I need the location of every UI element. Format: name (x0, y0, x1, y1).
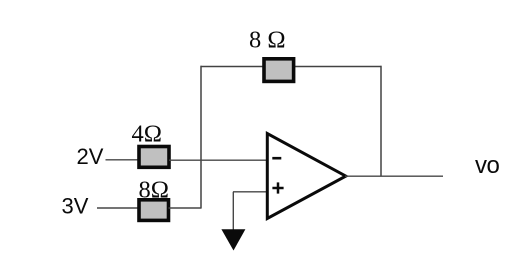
wire: feedback right vertical (from output node) (380, 66, 382, 177)
wire: 8 ohm input resistor to summing junction (169, 207, 202, 209)
wire: output (345, 175, 443, 177)
resistor 8 ohm (feedback) (264, 59, 294, 82)
wire: 3V lead (97, 207, 139, 209)
wire: non-inverting input lead (233, 191, 267, 193)
svg-text:vo: vo (475, 152, 500, 179)
svg-text:3V: 3V (62, 194, 89, 219)
svg-text:4Ω: 4Ω (132, 121, 162, 148)
wire: feedback top horizontal (left segment) (201, 66, 264, 68)
op-amp U1 (267, 134, 346, 219)
wire: feedback left vertical (to summing junction) (200, 66, 202, 209)
wire: ground lead vertical (232, 192, 234, 231)
ground (221, 229, 245, 250)
svg-text:8Ω: 8Ω (139, 176, 169, 203)
node: output junction with feedback (380, 175, 382, 177)
resistor 8 ohm (input from 3V) (139, 200, 169, 221)
svg-text:8 Ω: 8 Ω (249, 27, 286, 54)
svg-text:2V: 2V (77, 144, 104, 169)
resistor 4 ohm (input from 2V) (139, 147, 169, 168)
op-amp non-inverting input '+' (272, 182, 283, 193)
op-amp inverting input '-' (272, 157, 281, 160)
wire: feedback top horizontal (right segment) (294, 66, 382, 68)
wire: 2V lead (106, 159, 140, 161)
wire: 4 ohm resistor to inverting input (through summing junction) (169, 159, 267, 161)
node: summing junction at inverting input net (200, 159, 202, 161)
